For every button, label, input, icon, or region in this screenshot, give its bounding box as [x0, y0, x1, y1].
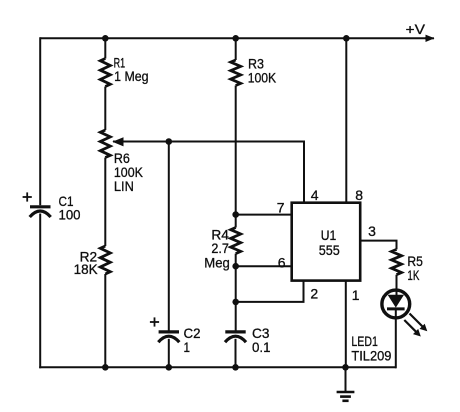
wire pin 3 to R5	[360, 241, 396, 250]
wire C2 column	[168, 142, 170, 331]
capacitor C2	[158, 332, 179, 342]
junction pin 7 node	[232, 211, 239, 218]
wire R3 column top stub	[235, 38, 237, 60]
C1 polarity plus sign	[23, 192, 32, 201]
capacitor C1	[30, 207, 51, 217]
svg-text:0.1: 0.1	[252, 339, 271, 355]
junction pin 8 top rail	[343, 35, 350, 42]
svg-text:+V: +V	[406, 21, 426, 37]
R3 value label	[248, 56, 277, 86]
svg-text:1K: 1K	[407, 267, 419, 283]
wire pin 7	[236, 214, 292, 216]
wire pin 8 column	[345, 38, 347, 202]
resistor R2	[100, 246, 110, 274]
wire C2 to bottom rail	[168, 339, 170, 368]
potentiometer R6	[100, 130, 123, 158]
wire bottom rail	[39, 366, 396, 368]
junction pin 6 node	[232, 263, 239, 270]
svg-text:1: 1	[352, 287, 360, 303]
wire pin 2	[236, 280, 304, 302]
svg-text:2: 2	[310, 286, 318, 302]
junction R1 top rail	[102, 35, 109, 42]
ground	[337, 367, 355, 401]
svg-text:U1: U1	[321, 227, 337, 243]
wire left rail upper (to C1)	[39, 37, 41, 205]
resistor R4	[231, 228, 241, 254]
svg-text:3: 3	[368, 223, 376, 239]
C1 value label	[59, 193, 81, 223]
R4 value label	[204, 226, 230, 270]
wire C3 to bottom rail	[235, 339, 237, 368]
LED LED1	[382, 290, 410, 318]
wire R3 to pin 7 node	[235, 86, 237, 228]
C2 value label	[184, 325, 201, 355]
resistor R3	[231, 60, 241, 86]
svg-text:4: 4	[311, 187, 319, 203]
resistor R5	[392, 249, 402, 274]
junction C2 bottom rail	[166, 364, 173, 371]
svg-text:100: 100	[59, 207, 81, 223]
C2 polarity plus sign	[150, 317, 159, 326]
R2 value label	[74, 248, 99, 277]
svg-text:7: 7	[277, 200, 285, 216]
R1 value label	[114, 54, 149, 84]
svg-text:555: 555	[319, 242, 340, 258]
wire R6 to R2	[104, 158, 106, 247]
wire R1 to R6	[104, 87, 106, 131]
svg-text:1: 1	[184, 339, 191, 355]
U1 label	[319, 227, 340, 258]
svg-text:6: 6	[278, 255, 286, 271]
wire LED to bottom rail	[395, 309, 397, 368]
wire R5 to LED	[396, 275, 398, 295]
C3 value label	[252, 325, 271, 355]
power +V arrow	[425, 35, 435, 42]
R6 value label	[114, 150, 144, 194]
wire pin 1 column	[345, 281, 347, 368]
svg-text:Meg: Meg	[204, 255, 230, 271]
LED1 value label	[351, 333, 391, 363]
svg-text:100K: 100K	[248, 69, 277, 85]
svg-text:18K: 18K	[74, 261, 99, 277]
junction pin 2 node	[232, 299, 239, 306]
wire R6 wiper to pin 4	[113, 142, 304, 203]
junction R2 bottom rail	[102, 364, 109, 371]
LED emission arrows	[404, 314, 427, 337]
junction R3 top rail	[232, 35, 239, 42]
op-amp U1 555 IC box	[292, 203, 361, 281]
svg-text:8: 8	[355, 187, 363, 203]
resistor R1	[100, 59, 110, 87]
wire top +V rail	[40, 37, 427, 39]
wire R4 to C3	[235, 254, 237, 331]
capacitor C3	[225, 332, 246, 342]
wire R2 to bottom rail	[104, 274, 106, 367]
junction C3 bottom rail	[232, 364, 239, 371]
wire left rail lower (C1 to bottom rail)	[39, 214, 41, 369]
junction wiper C2	[166, 138, 173, 145]
svg-text:LIN: LIN	[114, 178, 134, 194]
wire pin 6	[236, 265, 292, 267]
svg-text:TIL209: TIL209	[351, 347, 391, 363]
svg-text:1 Meg: 1 Meg	[114, 68, 149, 84]
R5 value label	[407, 253, 423, 283]
junction ground bottom rail	[342, 364, 349, 371]
wire R1 column top stub	[104, 38, 106, 58]
